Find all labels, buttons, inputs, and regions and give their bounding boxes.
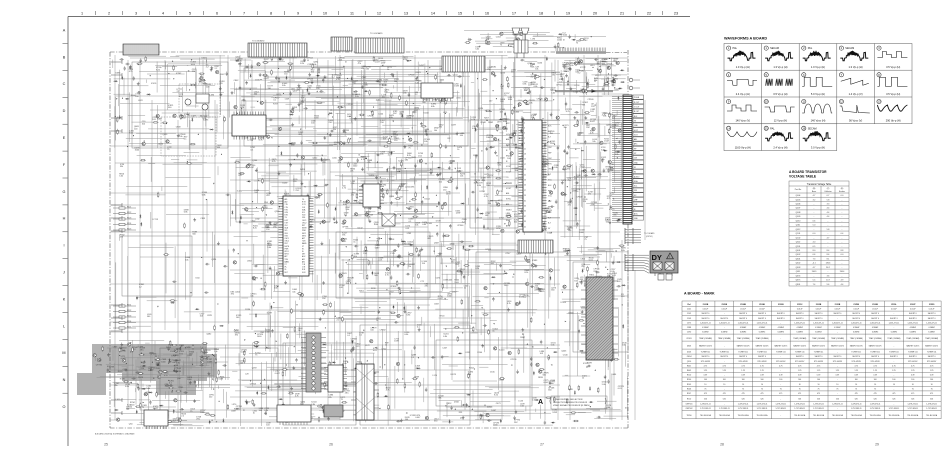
junction (608, 203, 609, 204)
svg-text:1-757-383-11: 1-757-383-11 (700, 408, 711, 410)
wire (387, 178, 389, 182)
svg-text:Q012: Q012 (796, 229, 801, 231)
svg-text:1/2W: 1/2W (403, 59, 408, 61)
wire (154, 341, 156, 363)
wire (115, 97, 117, 140)
svg-text:Q402: Q402 (796, 254, 801, 256)
wire (583, 254, 602, 256)
wire (478, 127, 508, 129)
svg-text:SAW/NT 50/475: SAW/NT 50/475 (737, 345, 750, 348)
wire (554, 60, 556, 82)
wire (577, 176, 609, 178)
capacitor (555, 200, 557, 204)
svg-text:SHORT 0: SHORT 0 (834, 356, 842, 358)
wire (230, 88, 279, 90)
resistor (317, 194, 323, 196)
svg-text:VHF: VHF (634, 204, 637, 206)
svg-text:2.4 Vp-p (H): 2.4 Vp-p (H) (773, 145, 787, 149)
wire (244, 79, 295, 81)
resistor (563, 165, 565, 171)
wire (119, 85, 148, 87)
svg-text:YS: YS (302, 199, 304, 201)
wire (186, 351, 188, 391)
wire (586, 58, 619, 60)
top ruler ticks (96, 11, 663, 15)
svg-text:1-453-471-11: 1-453-471-11 (870, 322, 881, 324)
capacitor (247, 163, 251, 165)
resistor (522, 198, 528, 200)
ground (565, 74, 568, 77)
wire (581, 147, 583, 179)
wire (349, 118, 421, 120)
wire (385, 231, 387, 244)
svg-text:10k: 10k (179, 96, 182, 98)
section sync (336, 232, 430, 298)
junction (594, 81, 595, 82)
ground (343, 141, 346, 144)
wire (591, 115, 597, 117)
svg-text:R125: R125 (127, 229, 131, 231)
wire (230, 59, 251, 61)
ground (292, 107, 295, 110)
wire (560, 114, 590, 116)
capacitor (307, 193, 309, 197)
ground (425, 132, 428, 135)
wire (122, 376, 184, 378)
capacitor (475, 154, 477, 158)
wire (527, 167, 529, 230)
wire (239, 65, 334, 67)
wire (436, 72, 438, 95)
svg-text:5.6k: 5.6k (554, 167, 558, 169)
ground (439, 172, 442, 175)
junction (577, 142, 578, 143)
wire (372, 117, 469, 119)
ground (573, 116, 576, 119)
wire (580, 142, 611, 144)
resistor (534, 74, 536, 80)
svg-text:STD 4453V: STD 4453V (908, 361, 918, 363)
wire (487, 140, 502, 142)
diode (219, 325, 223, 327)
svg-text:1-478-474-11: 1-478-474-11 (757, 404, 768, 406)
wire (364, 211, 375, 213)
svg-text:475: 475 (817, 393, 820, 395)
wire (342, 174, 344, 186)
diode (437, 167, 441, 169)
wire (341, 153, 403, 155)
diode (620, 69, 624, 71)
ground (520, 209, 523, 212)
svg-text:SAW/NT 50/475: SAW/NT 50/475 (906, 345, 919, 348)
wire (598, 116, 600, 137)
capacitor (354, 90, 358, 92)
arrow (188, 70, 190, 71)
svg-text:1k: 1k (492, 331, 494, 333)
svg-text:0.39: 0.39 (854, 375, 858, 377)
svg-text:10: 10 (893, 384, 895, 386)
svg-text:CP719: CP719 (606, 64, 613, 66)
wire (566, 88, 576, 90)
wire (244, 59, 246, 72)
svg-text:C102: C102 (687, 313, 691, 315)
svg-text:STD 4453V: STD 4453V (814, 361, 824, 363)
capacitor (397, 244, 399, 248)
ground (343, 129, 346, 132)
capacitor (436, 232, 438, 236)
wire (313, 127, 410, 129)
ground (415, 77, 418, 80)
wire (463, 86, 465, 107)
wire (376, 247, 380, 249)
svg-text:47k: 47k (338, 162, 341, 164)
resistor (290, 65, 292, 71)
svg-text:0.047: 0.047 (249, 167, 255, 169)
wire (492, 168, 494, 235)
wire (357, 258, 368, 260)
arrow (423, 196, 424, 198)
transistor (583, 170, 586, 173)
svg-text:TCHBH 511: TCHBH 511 (701, 352, 711, 354)
wire (228, 249, 230, 323)
svg-text:2SC: 2SC (567, 180, 571, 182)
wire (291, 78, 399, 80)
wire (516, 123, 560, 125)
resistor (317, 102, 323, 104)
resistor (372, 110, 374, 116)
capacitor (294, 224, 298, 226)
svg-text:0.047: 0.047 (459, 271, 465, 273)
arrow (270, 223, 271, 225)
wire (580, 100, 582, 133)
capacitor (557, 146, 559, 150)
svg-text:7.4: 7.4 (813, 284, 816, 286)
wire (361, 125, 378, 127)
wire (480, 141, 494, 143)
svg-text:4.7k: 4.7k (385, 275, 389, 277)
resistor (373, 56, 375, 62)
resistor (527, 149, 533, 151)
svg-text:0.01uF: 0.01uF (797, 309, 803, 311)
wire (287, 231, 289, 247)
wire (341, 259, 350, 261)
resistor (485, 110, 491, 112)
resistor (595, 282, 597, 288)
wire (150, 212, 152, 228)
wire (509, 134, 511, 150)
wire (276, 155, 327, 157)
svg-text:SHORT 0: SHORT 0 (815, 318, 823, 320)
svg-text:S1: S1 (634, 167, 636, 169)
svg-text:IC121: IC121 (237, 191, 243, 193)
wire (183, 362, 217, 364)
diode (146, 94, 150, 96)
resistor (530, 216, 536, 218)
svg-text:TRAP (CERAM): TRAP (CERAM) (831, 337, 844, 340)
transistor (180, 115, 183, 118)
arrow (200, 116, 201, 118)
wire (478, 167, 491, 169)
svg-text:KEY2: KEY2 (302, 235, 306, 237)
resistor (364, 200, 370, 202)
junction (454, 145, 455, 146)
wire (128, 115, 145, 117)
wire (240, 135, 347, 137)
svg-text:ABL: ABL (506, 192, 509, 195)
resistor (359, 114, 365, 116)
svg-text:475: 475 (911, 393, 914, 395)
diode (504, 112, 506, 116)
wire (335, 175, 379, 177)
wire (382, 124, 416, 126)
capacitor (124, 66, 126, 70)
resistor (421, 125, 427, 127)
svg-text:1-453-471-11: 1-453-471-11 (813, 322, 824, 324)
svg-text:RST: RST (285, 243, 288, 245)
svg-text:10: 10 (931, 384, 933, 386)
wire (236, 88, 238, 138)
arrow (498, 139, 499, 141)
resistor (440, 143, 442, 149)
svg-text:0.047: 0.047 (549, 383, 555, 385)
svg-text:IC220: IC220 (499, 350, 505, 352)
capacitor (602, 87, 604, 91)
svg-text:1k: 1k (201, 82, 203, 84)
resistor (496, 126, 498, 132)
capacitor (443, 59, 445, 63)
svg-text:VT: VT (285, 264, 287, 266)
svg-text:475: 475 (855, 393, 858, 395)
wire (254, 180, 303, 182)
svg-text:SAW/NT 50/475: SAW/NT 50/475 (850, 345, 863, 348)
svg-text:DY: DY (652, 253, 662, 262)
svg-text:OSC1: OSC1 (285, 238, 289, 240)
wire (562, 298, 586, 300)
diode (372, 271, 374, 275)
wire (413, 240, 415, 277)
svg-text:6.5: 6.5 (813, 246, 816, 248)
resistor (573, 125, 579, 127)
svg-text:2SC: 2SC (513, 133, 517, 135)
wire (404, 213, 426, 215)
svg-text:4.5MHZ: 4.5MHZ (928, 327, 935, 329)
capacitor (521, 117, 523, 121)
junction (201, 257, 202, 258)
svg-text:6.0MHZ: 6.0MHZ (797, 332, 804, 334)
junction (567, 186, 568, 187)
svg-text:8.8: 8.8 (841, 250, 844, 252)
wire (239, 87, 258, 89)
wire (266, 76, 327, 78)
svg-text:4.7k: 4.7k (607, 198, 611, 200)
ground (392, 223, 395, 226)
capacitor (476, 123, 478, 127)
svg-text:4.5MHZ: 4.5MHZ (910, 327, 917, 329)
arrow (614, 87, 616, 88)
svg-text:33: 33 (524, 206, 526, 208)
wire (483, 228, 494, 230)
svg-text:TRAP (CERAM): TRAP (CERAM) (925, 337, 938, 340)
capacitor (205, 263, 209, 265)
svg-text:1-757-383-11: 1-757-383-11 (851, 408, 862, 410)
capacitor (245, 66, 249, 68)
wire (317, 69, 319, 83)
svg-text:0.39: 0.39 (704, 375, 708, 377)
svg-text:5.6k: 5.6k (146, 388, 150, 390)
svg-text:39k: 39k (594, 80, 597, 82)
svg-text:IC808: IC808 (603, 85, 609, 87)
diode (509, 137, 513, 139)
wire (350, 269, 368, 271)
wire (580, 171, 582, 207)
svg-text:136.6: 136.6 (826, 263, 831, 265)
wire (208, 375, 210, 388)
resistor (271, 55, 273, 61)
capacitor (307, 247, 311, 249)
svg-text:4.4: 4.4 (827, 212, 830, 214)
svg-text:SHORT 0: SHORT 0 (871, 356, 879, 358)
ground (245, 81, 248, 84)
wire (165, 61, 167, 69)
wire (443, 233, 445, 246)
svg-text:75: 75 (836, 388, 838, 390)
svg-text:5.5: 5.5 (813, 280, 816, 282)
svg-text:TEL.BV-001A: TEL.BV-001A (832, 414, 844, 417)
wire (322, 161, 324, 176)
resistor (408, 254, 414, 256)
wire (225, 392, 227, 418)
svg-text:6.8k: 6.8k (615, 154, 619, 156)
svg-text:2108B: 2108B (740, 304, 746, 306)
svg-text:0.01uF: 0.01uF (872, 309, 878, 311)
svg-text:0.047: 0.047 (580, 166, 586, 168)
junction (189, 89, 190, 90)
wire (263, 60, 285, 62)
wire (332, 68, 344, 70)
svg-text:2102B: 2102B (816, 304, 822, 306)
svg-text:VIDEO: VIDEO (506, 209, 512, 211)
resistor (507, 82, 509, 88)
svg-text:TRAP (CERAM): TRAP (CERAM) (812, 337, 825, 340)
diode (286, 76, 288, 80)
wire (266, 173, 302, 175)
svg-text:1-757-383-11: 1-757-383-11 (794, 408, 805, 410)
wire (494, 186, 529, 188)
ground (566, 151, 569, 154)
svg-text:2102P: 2102P (910, 304, 916, 306)
wire (187, 390, 202, 392)
svg-text:526: 526 (817, 399, 820, 401)
diode (114, 409, 118, 411)
resistor (440, 97, 442, 103)
diode (525, 103, 529, 105)
diode (616, 261, 620, 263)
svg-text:V.OUT: V.OUT (506, 215, 512, 217)
svg-text:R100: R100 (687, 379, 691, 381)
svg-text:4.0: 4.0 (813, 242, 816, 244)
gray highlight region power primary (92, 344, 217, 381)
svg-text:27: 27 (524, 190, 526, 192)
wire (288, 277, 297, 279)
wire (468, 198, 470, 205)
transistor (600, 141, 603, 144)
svg-text:39k: 39k (231, 294, 234, 296)
svg-text:5.6k: 5.6k (375, 247, 379, 249)
junction (287, 239, 288, 240)
svg-text:0.01uF: 0.01uF (891, 309, 897, 311)
resistor (608, 128, 610, 134)
transistor (610, 167, 613, 170)
arrow (308, 173, 309, 175)
wire (481, 180, 485, 182)
wire (367, 240, 379, 242)
gray highlight patch degauss (77, 373, 106, 395)
diode (307, 88, 309, 92)
wire (125, 194, 165, 196)
wire (356, 101, 358, 135)
arrow (157, 306, 158, 308)
resistor (587, 266, 589, 272)
junction (331, 109, 332, 110)
svg-text:CP721: CP721 (556, 85, 563, 87)
wire (139, 368, 146, 370)
svg-text:2SC: 2SC (329, 122, 333, 124)
wire (608, 77, 610, 95)
svg-text:VT: VT (302, 246, 304, 248)
arrow (498, 125, 500, 126)
arrow (495, 202, 496, 204)
diode (121, 76, 123, 80)
capacitor (203, 82, 207, 84)
arrow (238, 63, 240, 64)
wire (319, 141, 406, 143)
resistor (411, 199, 417, 201)
diode (386, 168, 388, 172)
svg-text:PAL: PAL (733, 47, 738, 50)
svg-text:23: 23 (674, 12, 678, 16)
wire (145, 342, 150, 344)
wire (522, 131, 542, 133)
wire (377, 260, 379, 297)
svg-text:39k: 39k (564, 127, 567, 129)
svg-text:5.6k: 5.6k (343, 363, 347, 365)
junction (347, 78, 348, 79)
svg-text:3: 3 (524, 128, 525, 130)
svg-text:6.8k: 6.8k (523, 84, 527, 86)
capacitor (406, 273, 410, 275)
wire (396, 201, 398, 206)
svg-text:13: 13 (524, 154, 526, 156)
svg-text:4.7k: 4.7k (361, 159, 365, 161)
svg-text:39k: 39k (235, 335, 238, 337)
ground (494, 151, 497, 154)
wire (399, 179, 425, 181)
svg-text:TRAP (CERAM): TRAP (CERAM) (906, 337, 919, 340)
resistor (495, 170, 501, 172)
junction (575, 149, 576, 150)
svg-text:0.047: 0.047 (519, 296, 525, 298)
resistor (210, 415, 216, 417)
capacitor (125, 63, 129, 65)
wire (542, 157, 544, 211)
svg-text:526: 526 (930, 399, 933, 401)
arrow (328, 114, 330, 115)
transistor (491, 72, 494, 75)
wire (223, 389, 225, 403)
transistor (156, 114, 159, 117)
wire (240, 117, 327, 119)
capacitor (302, 215, 306, 217)
